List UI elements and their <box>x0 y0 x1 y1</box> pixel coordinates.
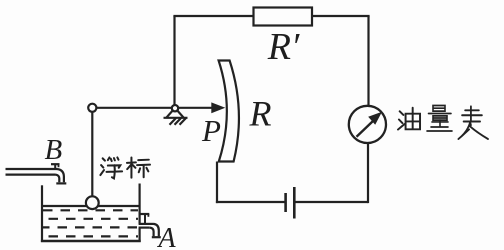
outlet A handle hook <box>147 214 149 217</box>
pivot hatch 3 <box>180 118 187 125</box>
svg-text:B: B <box>45 134 63 166</box>
wiper arrowhead <box>211 102 225 113</box>
liquid dashes row 4 <box>43 235 138 237</box>
float rod <box>91 112 93 197</box>
liquid dashes row 1 <box>43 209 138 211</box>
svg-text:R′: R′ <box>267 26 300 68</box>
pivot support base <box>164 117 188 119</box>
rheostat R curved band <box>219 61 239 162</box>
outlet A spout outer <box>154 224 159 236</box>
label 油量表 (hand-drawn strokes) <box>398 106 488 139</box>
svg-text:A: A <box>157 223 177 250</box>
faucet B spout inner <box>56 175 60 183</box>
lever joint circle <box>88 104 96 112</box>
faucet B pipe bottom <box>6 173 56 175</box>
meter U1 circle <box>349 106 386 143</box>
wire left vertical (to rheostat bottom) <box>216 162 218 204</box>
outlet A pipe bottom <box>139 227 150 229</box>
outlet A spout flare <box>152 236 161 238</box>
lever arm wire <box>96 107 213 109</box>
wire top rail right segment <box>312 15 370 17</box>
wire top rail left segment <box>173 15 254 17</box>
outlet A pipe top <box>139 223 154 225</box>
pivot hatch 1 <box>170 118 177 125</box>
tank bottom <box>41 240 141 243</box>
svg-text:P: P <box>201 113 221 148</box>
wire bottom rail right segment <box>295 201 369 203</box>
wire bottom rail left segment <box>216 201 286 203</box>
faucet B spout flare <box>56 182 66 184</box>
faucet B handle hook <box>58 164 60 167</box>
liquid dashes row 2 <box>43 218 138 220</box>
battery positive plate (long) <box>293 187 296 219</box>
outlet A handle stem <box>144 214 146 224</box>
wire right vertical lower <box>367 143 369 203</box>
outlet A handle bar <box>140 213 149 215</box>
liquid surface line <box>43 205 139 207</box>
tank right wall upper <box>139 184 141 224</box>
float ball <box>86 196 99 209</box>
pivot hatch 2 <box>175 118 182 125</box>
liquid dashes row 3 <box>43 226 138 228</box>
outlet A spout inner <box>150 228 154 237</box>
wire top-left vertical (pivot to top rail) <box>173 16 175 105</box>
label 浮标 (hand-drawn strokes) <box>100 157 150 178</box>
faucet B handle bar <box>51 163 60 165</box>
resistor R' <box>254 8 313 26</box>
svg-text:R: R <box>249 94 272 134</box>
wire right vertical upper <box>367 16 369 106</box>
pivot support right leg <box>177 111 183 118</box>
battery negative plate (short) <box>284 193 287 212</box>
pivot P circle <box>172 105 178 111</box>
tank right wall lower <box>139 228 141 242</box>
meter needle <box>357 121 374 137</box>
faucet B handle stem <box>54 164 56 169</box>
meter needle arrowhead <box>368 112 382 125</box>
faucet B spout outer <box>57 169 64 182</box>
pivot support left leg <box>166 111 172 118</box>
tank left wall <box>41 185 43 242</box>
faucet B pipe top <box>6 168 58 170</box>
